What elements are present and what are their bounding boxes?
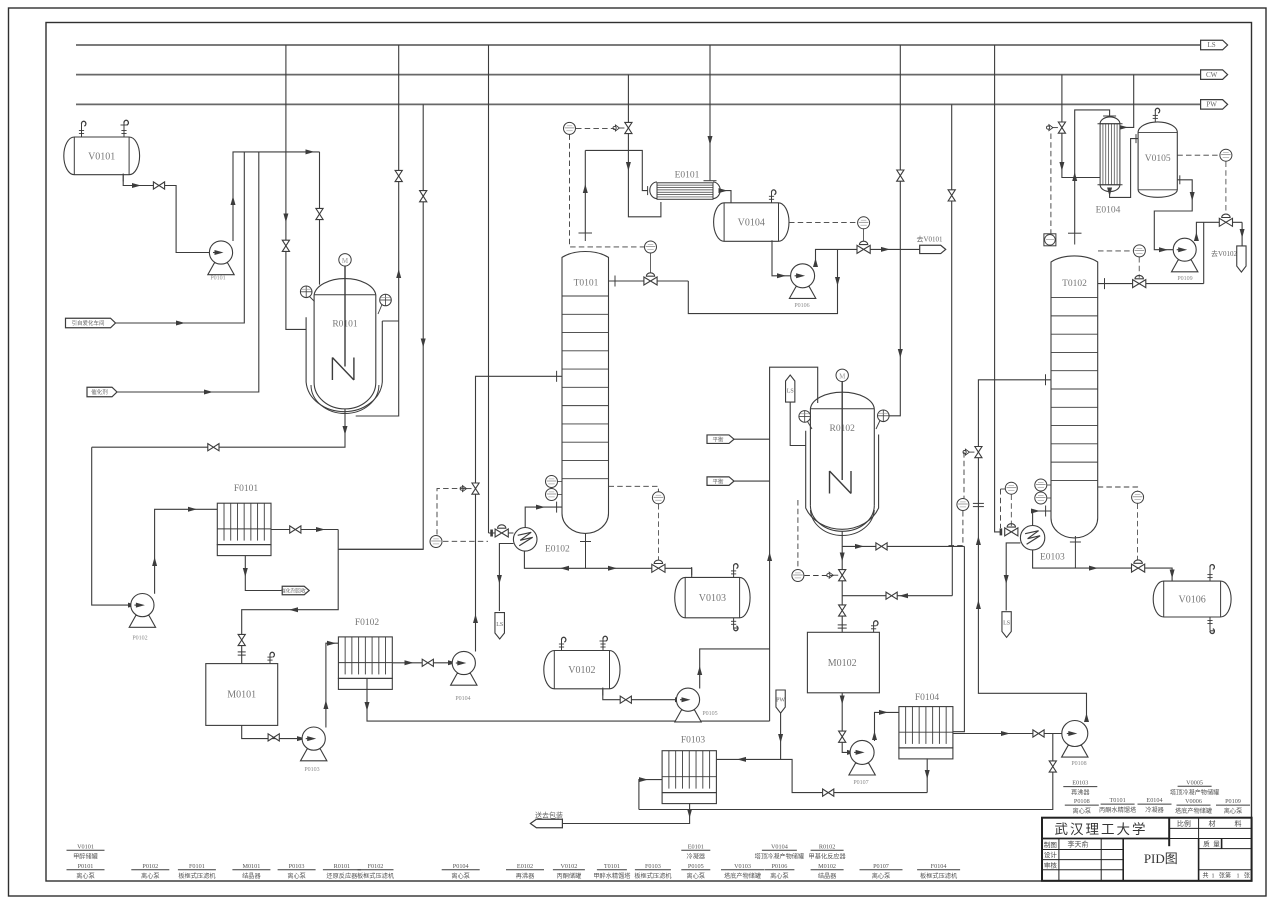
- control valve on side draw: [650, 253, 652, 276]
- wire T0102 top nozzle: [1074, 233, 1076, 244]
- callout LS trap E0102: [495, 613, 505, 639]
- wire PW cross connection: [951, 546, 953, 595]
- svg-text:P0101: P0101: [210, 276, 225, 282]
- wire T0102 overhead to E0104: [1075, 110, 1110, 233]
- wire T0102 side draw: [1098, 283, 1204, 285]
- wire P0104 discharge riser to T0101 feed: [476, 376, 563, 651]
- svg-text:P0107: P0107: [853, 780, 868, 786]
- vent on V0104: [771, 192, 773, 203]
- svg-text:塔底产物储罐: 塔底产物储罐: [724, 872, 761, 880]
- filter F0103: [662, 751, 716, 793]
- wire LS drop to R0101 jacket: [286, 45, 306, 329]
- svg-text:P0106: P0106: [771, 863, 787, 870]
- pump P0108: [1062, 745, 1088, 757]
- svg-text:P0107: P0107: [873, 863, 889, 870]
- valve on F0101 outlet: [290, 526, 296, 533]
- callout CW header: [1201, 70, 1228, 80]
- svg-text:E0104: E0104: [1146, 797, 1162, 804]
- mixer M0102: [807, 632, 879, 693]
- wire F0103 feed from bottom header: [639, 780, 662, 810]
- control valve on T0102 side draw: [1133, 280, 1140, 288]
- instrument TC-0103 and valve to V0103: [652, 492, 664, 504]
- wire T0101 bottom nozzle: [585, 534, 587, 569]
- svg-text:V0104: V0104: [771, 843, 788, 850]
- svg-text:R0102: R0102: [819, 843, 836, 850]
- valve on PW drop right: [948, 190, 955, 196]
- vent on V0101 left: [81, 124, 83, 138]
- svg-text:V0006: V0006: [1185, 798, 1202, 805]
- svg-text:P0101: P0101: [78, 863, 94, 870]
- svg-text:V0101: V0101: [77, 843, 94, 850]
- wire down to callout V0102: [1241, 222, 1243, 246]
- svg-text:T0102: T0102: [1062, 279, 1087, 289]
- svg-text:V0102: V0102: [560, 863, 577, 870]
- svg-text:P0103: P0103: [289, 863, 305, 870]
- nozzle circle R0102 right: [878, 410, 890, 422]
- svg-text:板框式压滤机: 板框式压滤机: [178, 872, 216, 880]
- wire callout2 to manifold: [117, 152, 259, 392]
- wire V0101 outlet to P0101: [123, 175, 209, 253]
- svg-text:离心泵: 离心泵: [141, 872, 160, 880]
- wire bottom long header: [639, 734, 1053, 810]
- instrument FC R0102: [792, 570, 804, 582]
- valve on wash line: [823, 789, 829, 796]
- valve on V0102 outlet: [620, 696, 626, 703]
- svg-text:M: M: [342, 257, 349, 265]
- svg-text:V0105: V0105: [1145, 154, 1171, 164]
- vessel V0102: [544, 651, 620, 689]
- svg-text:设计: 设计: [1044, 850, 1058, 859]
- svg-text:李天俞: 李天俞: [1068, 840, 1089, 849]
- instrument circles T0102 left: [1035, 479, 1047, 491]
- control valve on CW drop: [625, 122, 632, 128]
- wire P0103 discharge to F0102: [326, 643, 339, 727]
- wire F0102 bottoms long line: [367, 678, 770, 721]
- svg-text:质: 质: [1203, 839, 1210, 848]
- svg-text:塔顶冷凝产物储罐: 塔顶冷凝产物储罐: [1170, 788, 1220, 796]
- wire E0101 right outlet to V0104: [720, 191, 731, 203]
- svg-text:V0104: V0104: [738, 218, 765, 229]
- svg-text:还原反应器: 还原反应器: [326, 872, 358, 880]
- wire P0109 discharge: [1196, 222, 1242, 238]
- wire E0102 vapor return to T0101: [525, 507, 562, 527]
- svg-text:离心泵: 离心泵: [872, 872, 891, 880]
- wire P0105 discharge: [700, 649, 770, 689]
- svg-text:塔底产物储罐: 塔底产物储罐: [1175, 807, 1212, 815]
- svg-text:催化剂: 催化剂: [91, 388, 108, 396]
- wire T0101 bottoms line: [524, 551, 691, 568]
- wire LS drop to E0101 shell: [709, 45, 711, 181]
- instrument PC-0101: [564, 122, 576, 134]
- callout LS trap E0103: [1002, 612, 1011, 638]
- svg-text:F0102: F0102: [355, 618, 380, 628]
- wire F0104 outlet to P0108: [953, 733, 1062, 735]
- svg-text:引自爱化车间: 引自爱化车间: [71, 319, 104, 327]
- svg-text:甲基化反应器: 甲基化反应器: [809, 852, 847, 860]
- vessel V0101: [64, 137, 140, 175]
- wire callout balance1: [734, 438, 770, 440]
- svg-text:P0109: P0109: [1225, 798, 1241, 805]
- svg-text:F0104: F0104: [915, 693, 940, 703]
- wire LS header drop to R0102 right nozzle: [889, 45, 900, 416]
- svg-text:T0101: T0101: [1110, 797, 1126, 804]
- pump P0103: [301, 749, 327, 761]
- svg-text:武汉理工大学: 武汉理工大学: [1055, 822, 1148, 837]
- reboiler E0103: [1020, 526, 1044, 550]
- svg-text:M0101: M0101: [242, 863, 260, 870]
- svg-text:平衡: 平衡: [712, 435, 724, 443]
- callout LS header: [1201, 40, 1228, 50]
- svg-text:V0103: V0103: [699, 593, 726, 604]
- wire M0101 bottom to P0103: [242, 725, 302, 738]
- callout feed 2: [87, 387, 117, 397]
- wire F0102 outlet to P0104: [392, 662, 452, 664]
- callout balance 1: [707, 435, 734, 444]
- svg-text:LS: LS: [1003, 621, 1010, 627]
- svg-text:V0102: V0102: [568, 665, 595, 676]
- svg-text:离心泵: 离心泵: [76, 872, 95, 880]
- valve below M0102: [839, 731, 846, 737]
- filter F0102: [338, 637, 392, 679]
- instrument PC on V0105: [1177, 154, 1219, 156]
- wire T0102 bottom nozzle: [1074, 536, 1076, 568]
- svg-text:V0101: V0101: [88, 151, 115, 162]
- wire into V0103: [691, 568, 693, 577]
- wire side draw riser: [1203, 222, 1205, 283]
- svg-text:去V0101: 去V0101: [916, 235, 943, 244]
- instrument FC-0104: [430, 536, 442, 548]
- vent on V0106: [1209, 567, 1211, 581]
- control valve on R0102 bottoms: [839, 570, 846, 576]
- svg-text:丙酮水精馏塔: 丙酮水精馏塔: [1099, 806, 1137, 814]
- wire callout1 to manifold: [116, 152, 245, 323]
- svg-text:F0101: F0101: [189, 863, 205, 870]
- control valve on E0102 steam: [495, 529, 502, 537]
- instrument TC T0102: [1132, 491, 1144, 503]
- wire T0102 bottoms: [1033, 550, 1173, 581]
- pump P0107: [849, 763, 875, 775]
- heat exchanger E0101: [650, 182, 657, 199]
- wire wash line to F0104 right: [953, 546, 965, 731]
- svg-text:再沸器: 再沸器: [1071, 789, 1090, 797]
- wire P0108 discharge to T0102 feed: [978, 380, 1086, 722]
- callout PW supply: [776, 690, 785, 713]
- svg-text:E0104: E0104: [1096, 206, 1121, 216]
- valve on PW drop: [420, 191, 427, 197]
- svg-text:1: 1: [1212, 874, 1215, 880]
- wire LS drop to E0103: [995, 45, 1001, 532]
- svg-text:料: 料: [1235, 819, 1242, 828]
- svg-text:P0102: P0102: [142, 863, 158, 870]
- reactor R0102: [806, 431, 879, 529]
- wire F0101 bottom to catalyst recovery: [245, 556, 282, 591]
- svg-text:LS: LS: [496, 622, 503, 628]
- wire jacket connections R0101: [382, 320, 398, 322]
- svg-text:M: M: [839, 372, 846, 380]
- wire R0102 bottom outlet: [841, 531, 843, 632]
- vessel V0104: [714, 203, 789, 242]
- nozzle circle R0102 left: [799, 411, 811, 423]
- wire V0104 bottom to P0106: [772, 241, 790, 275]
- svg-text:E0101: E0101: [675, 171, 700, 181]
- svg-text:P0105: P0105: [688, 863, 704, 870]
- svg-text:P0103: P0103: [304, 767, 319, 773]
- control valve to V0106: [1132, 564, 1139, 572]
- pump P0102: [129, 616, 155, 628]
- wire F0103 bottoms to packaging: [562, 803, 689, 824]
- valve on lower branch: [886, 592, 892, 599]
- svg-text:V0103: V0103: [734, 863, 751, 870]
- wire T0101 top nozzle: [584, 233, 586, 241]
- wire LS drop to E0102: [488, 45, 490, 533]
- instrument square FC T0102: [1044, 234, 1056, 246]
- agitator motor M on R0101: [339, 254, 351, 266]
- vent on V0102 left: [561, 640, 563, 651]
- column T0102: [1051, 256, 1098, 538]
- valve on R0102 supply: [897, 170, 904, 176]
- wire PW to F0103: [716, 713, 780, 759]
- svg-text:F0103: F0103: [645, 863, 661, 870]
- svg-text:材: 材: [1209, 819, 1216, 828]
- instrument line PC down to LC: [570, 134, 645, 247]
- wire E0103 vapor return to T0102: [1033, 511, 1051, 526]
- svg-text:比例: 比例: [1177, 819, 1191, 828]
- svg-text:平衡: 平衡: [712, 477, 724, 485]
- wire R0101 jacket return riser: [356, 45, 399, 416]
- wire P0107 discharge to F0104: [875, 712, 899, 741]
- svg-text:张第: 张第: [1219, 872, 1231, 880]
- svg-text:甲醉水精馏塔: 甲醉水精馏塔: [593, 872, 631, 880]
- vent on V0105: [1154, 111, 1156, 122]
- svg-text:F0101: F0101: [234, 484, 259, 494]
- svg-text:甲醉储罐: 甲醉储罐: [73, 852, 98, 860]
- svg-text:离心泵: 离心泵: [687, 872, 706, 880]
- agitator shaft R0101: [344, 266, 346, 367]
- nozzle circle R0101 left: [300, 286, 312, 298]
- valve on F0104 outlet: [1033, 730, 1039, 737]
- wire P0106 discharge to V0101 recycle: [816, 249, 920, 264]
- svg-text:P0108: P0108: [1071, 761, 1086, 767]
- pump P0104: [451, 673, 477, 685]
- svg-text:M0102: M0102: [828, 658, 857, 669]
- wire E0104 return to PW header: [1120, 75, 1134, 128]
- valve above M0102: [839, 605, 846, 611]
- pump P0101: [208, 263, 234, 275]
- svg-text:丙酮储罐: 丙酮储罐: [557, 872, 582, 880]
- svg-text:T0101: T0101: [574, 279, 599, 289]
- vent on V0102 right: [602, 639, 604, 651]
- wire PW header drop to M0102 lines: [951, 104, 953, 546]
- svg-text:1: 1: [1237, 874, 1240, 880]
- svg-text:P0108: P0108: [1074, 798, 1090, 805]
- svg-text:T0101: T0101: [604, 863, 620, 870]
- svg-text:PW: PW: [1206, 101, 1217, 109]
- wire PW tee line: [338, 548, 423, 550]
- wire T0101 side draw: [609, 280, 689, 282]
- wire drop to P0102: [92, 447, 131, 605]
- valve on R0101 bottom line: [208, 444, 214, 451]
- svg-text:送去包装: 送去包装: [535, 811, 563, 820]
- svg-text:P0104: P0104: [455, 696, 470, 702]
- instrument circles T0101 left: [546, 476, 558, 488]
- svg-text:LS: LS: [1208, 41, 1216, 49]
- wire R0101 bottom outlet: [92, 409, 345, 447]
- svg-text:去V0102: 去V0102: [1211, 249, 1238, 258]
- callout balance 2: [707, 477, 734, 486]
- wire P0101 discharge riser: [233, 152, 320, 241]
- wire callout balance2: [734, 480, 770, 482]
- svg-text:再沸器: 再沸器: [516, 872, 535, 880]
- svg-text:结晶器: 结晶器: [242, 872, 261, 880]
- wire recycle riser to R0102: [770, 367, 818, 721]
- svg-text:催化剂回收: 催化剂回收: [281, 588, 306, 595]
- agitator motor M on R0102: [836, 369, 848, 381]
- filter F0101: [217, 503, 271, 544]
- wire CW drop to E0104: [1062, 75, 1100, 178]
- wire P0102 discharge to F0101: [155, 509, 218, 594]
- svg-text:离心泵: 离心泵: [1224, 807, 1243, 815]
- wire M0102 bottom to P0107: [842, 693, 850, 753]
- svg-text:E0102: E0102: [545, 545, 570, 555]
- svg-text:V0106: V0106: [1179, 595, 1206, 606]
- svg-text:P0102: P0102: [132, 636, 147, 642]
- instrument LC-0102: [645, 241, 657, 253]
- vessel V0103: [675, 577, 750, 617]
- wire V0102 outlet to P0105: [603, 689, 676, 700]
- valve on jacket supply: [282, 240, 289, 246]
- valve on bottom drop: [1049, 761, 1056, 767]
- utility header CW: [76, 74, 1201, 76]
- vent on V0103: [733, 566, 735, 578]
- svg-text:P0105: P0105: [702, 711, 717, 717]
- svg-text:冷凝器: 冷凝器: [1145, 806, 1164, 814]
- wire V0105 outlet to P0109: [1154, 180, 1192, 250]
- wire branch to wash line upper: [842, 545, 964, 547]
- svg-text:板框式压滤机: 板框式压滤机: [634, 872, 672, 880]
- valve on upper branch: [876, 543, 882, 550]
- wire CW drop to E0101: [628, 75, 661, 217]
- column T0101: [562, 252, 609, 534]
- title block: [1042, 818, 1252, 881]
- callout feed 1: [66, 318, 116, 328]
- svg-text:离心泵: 离心泵: [287, 872, 306, 880]
- wire R0101 feed drop: [319, 152, 321, 285]
- svg-text:M0101: M0101: [227, 690, 256, 701]
- wire LS to jacket R0102: [790, 402, 806, 445]
- control valve on recycle: [863, 229, 865, 245]
- pump P0105: [675, 710, 701, 722]
- svg-text:E0103: E0103: [1040, 553, 1065, 563]
- wire E0104 condensate to V0105: [1110, 139, 1139, 198]
- wire PW branch to wash line: [781, 759, 928, 792]
- control valve to V0102 recycle: [1225, 162, 1227, 218]
- reboiler E0102: [513, 528, 537, 552]
- valve on R0101 feed: [316, 208, 323, 214]
- svg-text:量: 量: [1213, 840, 1220, 848]
- svg-text:E0101: E0101: [688, 843, 704, 850]
- wire E0103 drain to LS trap: [1006, 543, 1020, 611]
- valve on F0102 outlet: [422, 659, 428, 666]
- svg-text:离心泵: 离心泵: [1073, 807, 1092, 815]
- valve after M0101: [268, 734, 274, 741]
- svg-text:F0104: F0104: [931, 863, 947, 870]
- svg-text:板框式压滤机: 板框式压滤机: [920, 872, 958, 880]
- control valve on E0103 steam: [1005, 528, 1012, 536]
- svg-text:结晶器: 结晶器: [818, 872, 837, 880]
- callout PW header: [1201, 100, 1228, 110]
- svg-text:M0102: M0102: [818, 863, 836, 870]
- vessel V0105: [1138, 122, 1177, 197]
- utility header PW: [76, 103, 1201, 105]
- svg-text:CW: CW: [1206, 71, 1218, 79]
- svg-text:板框式压滤机: 板框式压滤机: [357, 872, 395, 880]
- wire F0101 outlet: [271, 529, 338, 531]
- vent on M0102: [873, 623, 875, 632]
- mixer M0101: [206, 664, 278, 726]
- svg-text:PID图: PID图: [1144, 851, 1178, 866]
- svg-text:共: 共: [1203, 872, 1209, 880]
- callout catalyst recovery: [282, 586, 309, 595]
- valve above M0101: [238, 634, 245, 640]
- vessel V0106: [1153, 581, 1231, 617]
- pump P0106: [789, 287, 815, 299]
- valve on V0101 outlet: [153, 182, 159, 189]
- callout LS to R0102 jacket: [786, 375, 795, 402]
- control valve on T0102 feed riser: [975, 447, 982, 453]
- svg-text:塔顶冷凝产物储罐: 塔顶冷凝产物储罐: [755, 852, 805, 860]
- vent on V0101 right: [123, 123, 125, 138]
- wire T0101 overhead to E0101: [584, 150, 586, 233]
- heat exchanger E0104: [1100, 117, 1120, 124]
- drain on V0106: [1209, 617, 1211, 631]
- nozzle circle R0101 right: [380, 294, 392, 306]
- instrument TI E0103: [1005, 482, 1017, 494]
- svg-text:张: 张: [1244, 872, 1250, 880]
- svg-text:R0101: R0101: [334, 863, 351, 870]
- svg-text:审核: 审核: [1044, 860, 1058, 869]
- svg-text:离心泵: 离心泵: [770, 872, 789, 880]
- control valve on CW drop: [1058, 122, 1065, 128]
- instrument LC on V0104: [789, 221, 857, 223]
- svg-text:离心泵: 离心泵: [451, 872, 470, 880]
- svg-text:E0102: E0102: [517, 863, 533, 870]
- vent on M0101: [269, 655, 271, 664]
- valve on jacket return: [395, 170, 402, 176]
- svg-text:PW: PW: [776, 698, 785, 704]
- reactor R0101: [306, 317, 382, 411]
- wire side draw down to recycle header: [688, 249, 837, 313]
- svg-text:V0005: V0005: [1186, 779, 1203, 786]
- utility header LS: [76, 44, 1201, 46]
- svg-text:制图: 制图: [1044, 840, 1057, 849]
- wire branch lower: [842, 595, 952, 597]
- svg-text:P0109: P0109: [1177, 276, 1192, 282]
- pump P0109: [1172, 260, 1198, 272]
- svg-text:冷凝器: 冷凝器: [687, 852, 706, 860]
- wire E0102 steam feed: [489, 532, 514, 534]
- filter F0104: [899, 707, 953, 748]
- instrument line to CW valve: [1050, 134, 1052, 234]
- agitator shaft R0102: [841, 382, 843, 481]
- drain on V0103: [733, 618, 735, 628]
- instrument FC on feed riser: [957, 499, 969, 511]
- svg-text:F0103: F0103: [681, 736, 706, 746]
- svg-text:P0104: P0104: [453, 863, 469, 870]
- wire F0101 outlet drop to M0101: [242, 530, 339, 664]
- wire F0104 bottom outlet: [926, 758, 928, 792]
- svg-text:F0102: F0102: [368, 863, 384, 870]
- svg-text:P0106: P0106: [794, 303, 809, 309]
